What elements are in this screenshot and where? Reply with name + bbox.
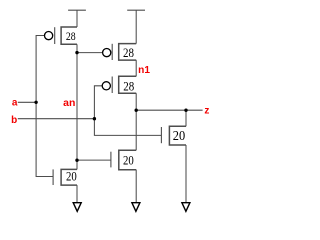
svg-text:n1: n1 — [138, 65, 150, 76]
svg-text:28: 28 — [66, 29, 76, 43]
svg-text:20: 20 — [66, 170, 77, 184]
svg-text:28: 28 — [123, 45, 134, 60]
svg-text:20: 20 — [173, 128, 186, 143]
svg-text:20: 20 — [123, 154, 134, 168]
svg-text:z: z — [204, 105, 209, 116]
svg-text:an: an — [63, 98, 75, 109]
svg-text:b: b — [11, 115, 17, 126]
svg-text:28: 28 — [123, 78, 134, 93]
svg-text:a: a — [12, 98, 18, 109]
